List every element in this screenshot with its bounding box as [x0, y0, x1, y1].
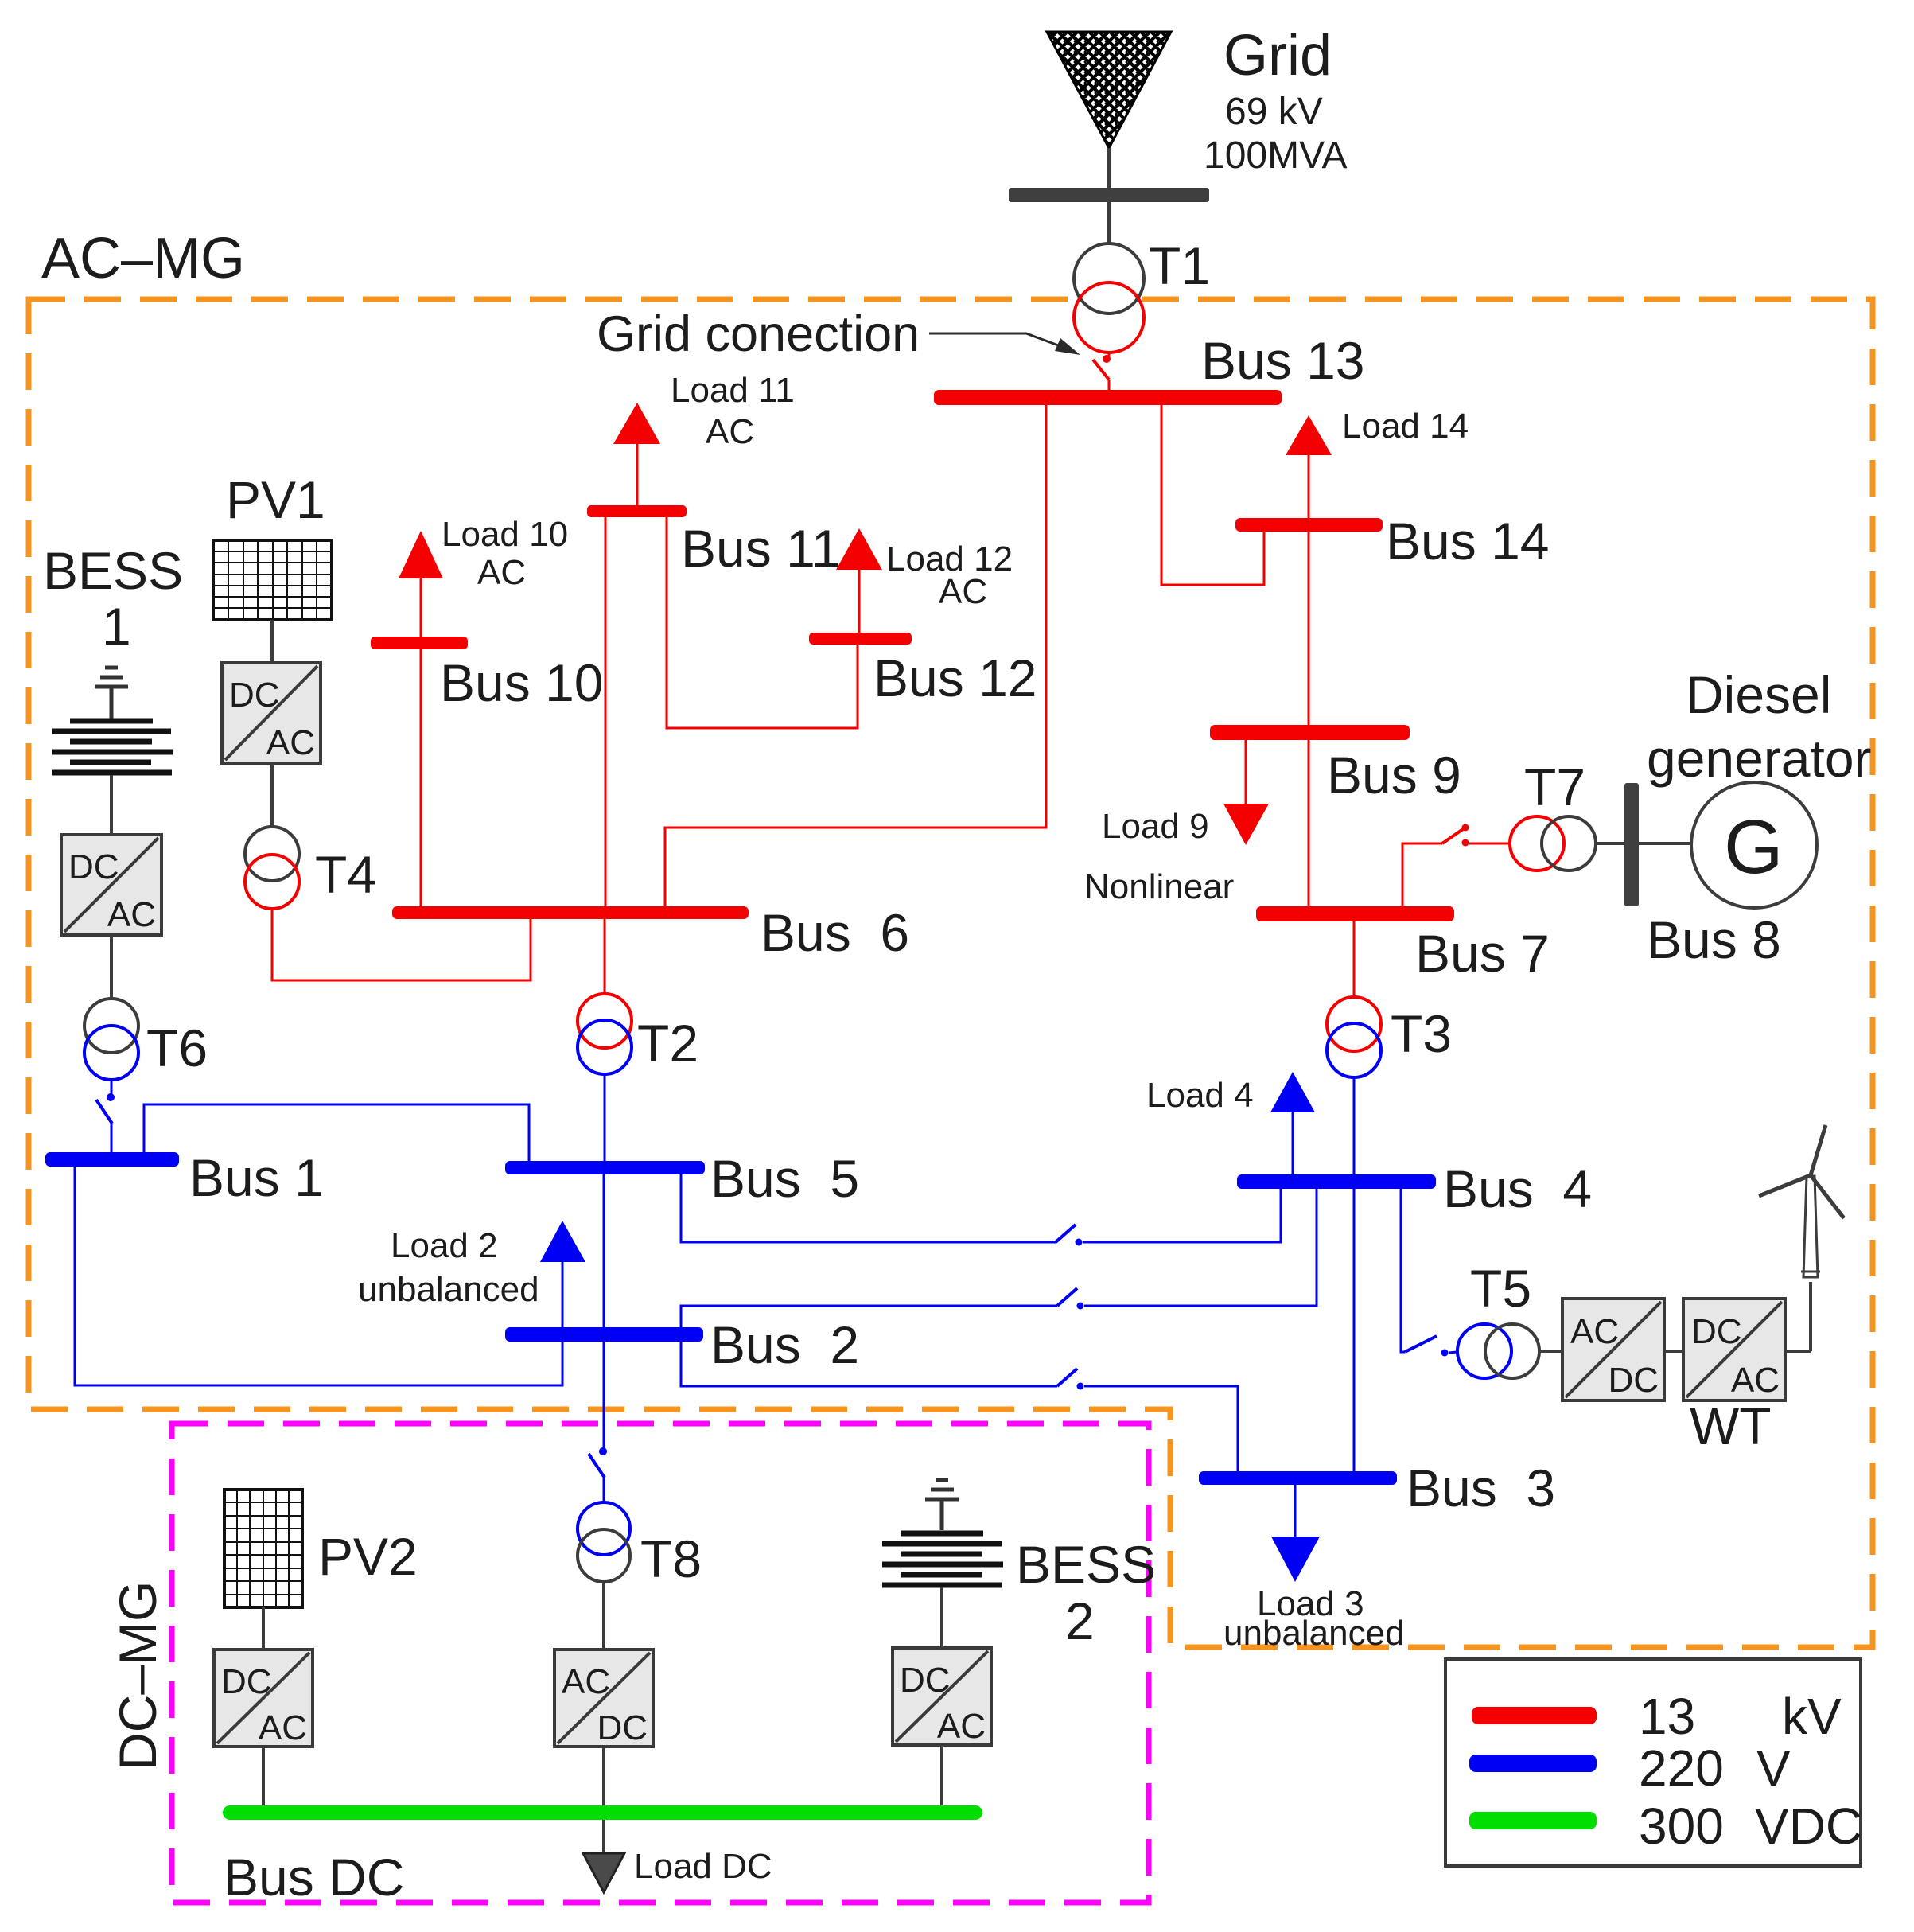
svg-text:1: 1	[102, 597, 131, 656]
svg-text:BESS: BESS	[1016, 1535, 1156, 1594]
transformer T6	[84, 999, 138, 1080]
converter DC/AC (PV1)	[222, 663, 321, 763]
wind turbine WT	[1759, 1125, 1844, 1351]
bus Bus 6	[392, 906, 749, 919]
bus Bus 11	[587, 505, 687, 517]
svg-text:Bus 13: Bus 13	[1201, 331, 1364, 390]
wire grid triangle to HV bar	[1107, 148, 1111, 188]
svg-text:AC: AC	[259, 1708, 307, 1747]
svg-text:Grid: Grid	[1223, 24, 1332, 88]
wire PV2 to converter	[262, 1607, 265, 1650]
svg-text:Bus 12: Bus 12	[873, 649, 1037, 707]
svg-text:Load 14: Load 14	[1342, 407, 1469, 446]
wire T8 to AC/DC converter	[602, 1582, 605, 1650]
battery BESS2	[882, 1533, 1003, 1585]
wire PV1 to converter	[270, 620, 274, 663]
svg-text:2: 2	[1065, 1591, 1095, 1650]
legend 300 VDC (green)	[1469, 1812, 1597, 1829]
switch grid connection (open)	[1093, 353, 1111, 391]
svg-text:69 kV: 69 kV	[1225, 91, 1323, 133]
svg-text:generator: generator	[1647, 729, 1872, 788]
transformer T3	[1327, 997, 1381, 1077]
transformer T1	[1074, 243, 1144, 353]
wire Bus2 to T8 with switch	[589, 1342, 607, 1502]
wire T4 to Bus6 (down, right, up)	[272, 909, 531, 980]
legend 220 V (blue)	[1469, 1755, 1597, 1772]
load Load 2 (arrow up)	[540, 1221, 585, 1327]
svg-text:100MVA: 100MVA	[1204, 134, 1348, 177]
svg-text:Load DC: Load DC	[634, 1847, 772, 1886]
svg-text:Bus DC: Bus DC	[224, 1848, 404, 1907]
svg-text:AC: AC	[477, 553, 526, 592]
wire T3 to Bus4	[1353, 1077, 1356, 1174]
svg-text:Bus 14: Bus 14	[1386, 512, 1549, 571]
svg-text:Diesel: Diesel	[1686, 665, 1831, 724]
bus Bus 7	[1256, 906, 1454, 921]
svg-text:PV2: PV2	[318, 1527, 418, 1586]
wire tie Bus2 to Bus4 with switch	[681, 1189, 1317, 1327]
legend box	[1445, 1659, 1862, 1866]
wire battery to converter (BESS2)	[940, 1587, 943, 1648]
svg-text:Load 11: Load 11	[671, 371, 795, 410]
svg-text:DC: DC	[900, 1661, 951, 1700]
svg-text:BESS: BESS	[43, 541, 183, 600]
transformer T7	[1510, 816, 1596, 871]
svg-text:13: 13	[1639, 1688, 1695, 1745]
wire converter to Bus DC (PV2)	[262, 1747, 265, 1807]
wire Bus1 to Bus5 (up, right, down)	[144, 1104, 529, 1161]
svg-text:DC: DC	[221, 1662, 272, 1701]
wire converter to Bus DC and Load DC	[602, 1747, 605, 1853]
svg-text:T2: T2	[637, 1014, 698, 1073]
wire Bus7 to T7 switch	[1402, 843, 1442, 906]
svg-text:Load 9: Load 9	[1102, 807, 1209, 846]
wire Bus1 to Bus2 (down, right, up)	[75, 1167, 562, 1385]
svg-text:Bus 1: Bus 1	[189, 1148, 324, 1207]
AC-MG dashed boundary box	[29, 299, 1873, 1647]
svg-text:Load 4: Load 4	[1146, 1076, 1254, 1115]
bus Bus 1	[45, 1152, 179, 1167]
load Load 14 (arrow up)	[1286, 415, 1332, 518]
svg-text:T3: T3	[1391, 1004, 1452, 1063]
svg-text:Load 2: Load 2	[391, 1226, 498, 1265]
load Load 3 (arrow down)	[1271, 1485, 1320, 1582]
svg-text:Bus 3: Bus 3	[1406, 1459, 1555, 1517]
svg-text:Load 10: Load 10	[442, 515, 568, 554]
svg-text:T1: T1	[1149, 236, 1210, 295]
svg-text:Bus 5: Bus 5	[710, 1149, 859, 1208]
svg-text:Bus 10: Bus 10	[440, 653, 603, 712]
converter AC/DC (WT)	[1562, 1299, 1664, 1400]
wire converter to T6	[110, 935, 113, 999]
bus Bus 5	[505, 1161, 705, 1174]
bus Bus 2	[505, 1327, 703, 1342]
wire T7 to Bus8	[1596, 842, 1624, 845]
wire Bus13 to Bus6 (down, left, down)	[665, 405, 1046, 906]
ground symbol (BESS1)	[95, 668, 128, 719]
bus Bus 9	[1210, 725, 1410, 740]
converter DC/AC (PV2)	[214, 1650, 313, 1747]
svg-text:PV1: PV1	[226, 470, 325, 529]
wire converter to T4	[270, 763, 274, 827]
svg-text:DC: DC	[229, 676, 280, 715]
wire tie Bus5 to Bus4 with switch	[681, 1174, 1281, 1246]
svg-text:AC–MG: AC–MG	[41, 227, 245, 290]
converter AC/DC (T8)	[554, 1650, 653, 1747]
svg-text:T4: T4	[315, 845, 376, 904]
svg-text:T8: T8	[640, 1529, 702, 1588]
svg-text:G: G	[1724, 804, 1784, 890]
bus Bus 10	[371, 637, 468, 649]
svg-text:AC: AC	[939, 572, 987, 611]
svg-text:Nonlinear: Nonlinear	[1084, 867, 1234, 906]
wire Bus12 to Bus11 (down, left, up)	[667, 517, 858, 728]
bus Bus 3	[1199, 1471, 1397, 1485]
wire HV bar to T1	[1107, 202, 1111, 243]
svg-text:Bus 8: Bus 8	[1647, 910, 1781, 969]
load Load 4 (arrow up)	[1270, 1072, 1315, 1174]
svg-text:AC: AC	[1570, 1312, 1619, 1351]
ground symbol (BESS2)	[925, 1480, 959, 1530]
wire Bus14 to Bus9	[1308, 532, 1310, 725]
wire Bus7 to T3	[1353, 921, 1356, 997]
load Load 9 (arrow down, nonlinear)	[1223, 740, 1269, 845]
svg-text:V: V	[1756, 1739, 1791, 1797]
wire battery to converter (BESS1)	[110, 775, 113, 835]
wire Bus4 to T5 with switch	[1401, 1189, 1457, 1357]
converter DC/AC (BESS2)	[893, 1648, 991, 1746]
transformer T5	[1457, 1324, 1539, 1378]
wire Bus10 to Bus6	[420, 649, 422, 906]
svg-text:Grid conection: Grid conection	[597, 306, 920, 362]
load Load 12 (arrow up)	[836, 528, 882, 633]
wire tie Bus2 to Bus3 with switch	[681, 1342, 1238, 1471]
svg-text:Bus 2: Bus 2	[710, 1315, 859, 1374]
wire Bus11 to Bus6	[605, 517, 607, 906]
solar panel PV2	[224, 1490, 302, 1607]
solar panel PV1	[213, 540, 332, 620]
switch Bus7-T7 (open)	[1442, 824, 1510, 847]
wire converter to Bus DC (BESS2)	[940, 1745, 943, 1807]
grid source symbol (crosshatched triangle)	[1047, 32, 1171, 148]
HV grid bus bar (dark)	[1009, 188, 1209, 202]
bus Bus 8 (dark vertical bar)	[1624, 783, 1639, 906]
svg-text:Bus 11: Bus 11	[681, 519, 841, 578]
svg-text:300: 300	[1639, 1798, 1724, 1855]
converter DC/AC (BESS1)	[61, 835, 161, 935]
svg-text:AC: AC	[266, 723, 315, 762]
svg-text:T6: T6	[146, 1019, 208, 1077]
transformer T8	[578, 1502, 630, 1582]
svg-text:DC: DC	[68, 847, 119, 886]
generator G (diesel)	[1691, 782, 1817, 908]
svg-text:AC: AC	[937, 1707, 986, 1746]
wire Bus9 to Bus7	[1308, 740, 1310, 906]
leader arrow to grid switch	[929, 333, 1080, 355]
svg-text:AC: AC	[562, 1662, 610, 1701]
load Load DC (arrow down)	[583, 1853, 624, 1892]
wire Bus13 to Bus14 (down, right, up)	[1161, 405, 1264, 585]
svg-text:DC: DC	[1608, 1361, 1659, 1400]
wire Bus6 to T2	[604, 919, 606, 994]
load Load 10 (arrow up)	[399, 531, 443, 637]
bus Bus 14	[1235, 518, 1383, 532]
svg-text:VDC: VDC	[1755, 1798, 1862, 1855]
svg-text:unbalanced: unbalanced	[1223, 1614, 1405, 1653]
svg-text:WT: WT	[1690, 1396, 1772, 1455]
wire T2 to Bus5	[604, 1074, 606, 1161]
svg-text:kV: kV	[1782, 1688, 1842, 1745]
wire Bus8 to generator	[1639, 842, 1691, 845]
svg-text:Bus 6: Bus 6	[761, 903, 909, 962]
svg-text:220: 220	[1639, 1739, 1724, 1797]
svg-text:Bus 9: Bus 9	[1327, 746, 1461, 804]
wire Bus5 to Bus2	[603, 1174, 605, 1327]
svg-text:Bus 4: Bus 4	[1443, 1159, 1592, 1218]
svg-text:T5: T5	[1470, 1259, 1531, 1318]
wire between WT converters	[1664, 1350, 1683, 1353]
switch T6 to Bus1 (open)	[96, 1080, 115, 1152]
svg-text:Bus 7: Bus 7	[1415, 924, 1550, 983]
DC-MG dashed boundary box	[172, 1424, 1149, 1903]
load Load 11 (arrow up)	[613, 403, 660, 505]
svg-text:DC: DC	[1691, 1312, 1742, 1351]
svg-text:AC: AC	[107, 895, 156, 934]
converter DC/AC (WT)	[1683, 1299, 1785, 1400]
svg-text:AC: AC	[706, 412, 754, 451]
wire Bus4 to Bus3	[1353, 1189, 1356, 1471]
bus Bus 4	[1237, 1174, 1436, 1189]
transformer T2	[578, 994, 632, 1074]
svg-text:DC–MG: DC–MG	[108, 1581, 167, 1770]
svg-text:T7: T7	[1524, 758, 1585, 816]
svg-text:unbalanced: unbalanced	[358, 1270, 539, 1309]
legend 13 kV (red)	[1472, 1707, 1597, 1724]
transformer T4	[245, 827, 299, 909]
svg-text:AC: AC	[1731, 1361, 1780, 1400]
bus Bus 13	[934, 390, 1282, 405]
wire T5 to AC/DC converter	[1539, 1350, 1562, 1353]
svg-text:DC: DC	[597, 1708, 648, 1747]
battery BESS1	[52, 721, 173, 773]
bus Bus 12	[809, 633, 912, 645]
bus Bus DC (green)	[223, 1805, 982, 1820]
